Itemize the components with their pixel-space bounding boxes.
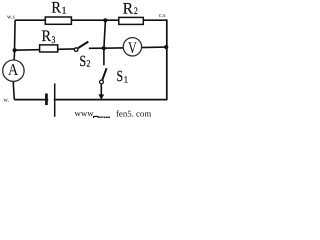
svg-text:A: A	[8, 60, 18, 79]
battery gap eraser	[48, 97, 54, 104]
node junction middle-right (middle wire and right vertical)	[164, 45, 168, 49]
battery negative plate (short thick)	[45, 94, 48, 106]
resistor R3	[40, 45, 58, 52]
node junction top (S1 branch and top wire)	[103, 18, 107, 22]
battery positive plate (long thin)	[54, 83, 56, 116]
svg-text:w.: w.	[4, 98, 10, 104]
svg-text:R: R	[42, 28, 52, 45]
wire bottom horizontal	[14, 99, 167, 101]
svg-text:R: R	[123, 1, 134, 18]
svg-text:3: 3	[52, 35, 56, 46]
svg-text:S: S	[117, 68, 124, 85]
wire middle horizontal left (node to S2)	[15, 49, 75, 50]
wire S1 lower stub	[100, 84, 102, 99]
voltmeter V	[123, 38, 141, 56]
switch S1 blade	[102, 68, 106, 80]
svg-text:1: 1	[62, 5, 67, 16]
wire top horizontal	[15, 19, 167, 21]
svg-text:2: 2	[86, 60, 90, 70]
node junction middle-left (middle wire and left vertical)	[13, 48, 17, 52]
svg-text:www: www	[75, 108, 95, 118]
wire left vertical	[13, 20, 15, 99]
svg-text:2: 2	[134, 6, 138, 17]
wire S1 upper stub	[103, 48, 105, 65]
resistor R2	[119, 17, 144, 24]
switch S2 pivot circle	[74, 48, 78, 52]
switch S2 blade	[78, 42, 88, 49]
svg-text:V: V	[128, 38, 137, 57]
svg-text:fen5. com: fen5. com	[116, 108, 151, 118]
node junction middle (S1 branch and middle wire)	[102, 46, 106, 50]
cutoff glyph fragments bottom	[94, 116, 99, 118]
resistor R1	[45, 17, 71, 24]
svg-text:c.s: c.s	[159, 13, 166, 19]
wire S1 branch vertical (top wire to middle wire)	[104, 20, 106, 48]
svg-text:1: 1	[124, 75, 129, 85]
arrowhead at bottom of S1 branch	[98, 94, 104, 99]
switch S1 pivot circle	[100, 80, 104, 84]
wire middle horizontal right (S2 contact to right vertical)	[89, 47, 166, 48]
svg-text:R: R	[51, 0, 61, 16]
ammeter A	[3, 60, 24, 81]
svg-text:S: S	[79, 53, 86, 70]
wire right vertical	[166, 19, 168, 100]
svg-text:w.s: w.s	[7, 15, 15, 21]
